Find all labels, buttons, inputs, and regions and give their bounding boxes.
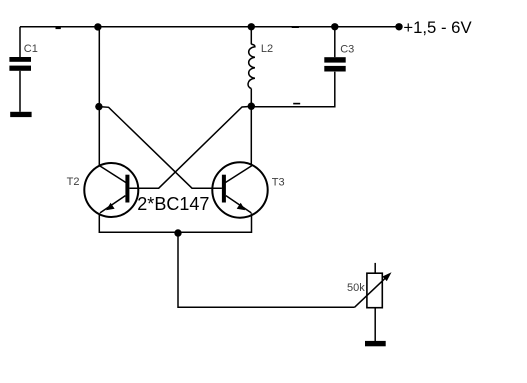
svg-text:+1,5 - 6V: +1,5 - 6V: [403, 18, 472, 37]
svg-text:2*BC147: 2*BC147: [137, 194, 209, 214]
svg-text:C1: C1: [24, 43, 38, 55]
svg-text:T3: T3: [272, 177, 285, 189]
svg-text:T2: T2: [67, 176, 80, 188]
svg-text:C3: C3: [340, 43, 354, 55]
svg-text:L2: L2: [261, 43, 273, 55]
svg-text:50k: 50k: [347, 282, 365, 294]
